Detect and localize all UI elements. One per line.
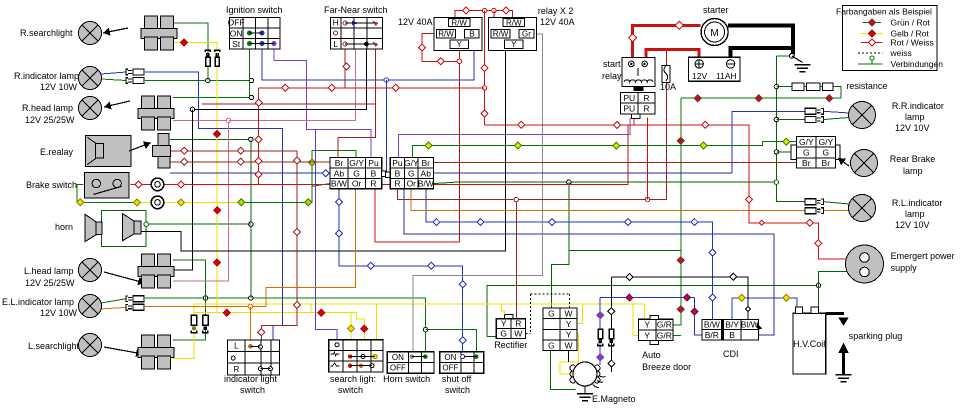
rings on brake wires xyxy=(151,178,164,191)
svg-text:R: R xyxy=(370,179,376,189)
svg-text:horn: horn xyxy=(55,222,73,232)
brake switch xyxy=(85,173,130,199)
wire: green ground bus y98 xyxy=(681,97,841,99)
wire: black far-near L down-left xyxy=(193,49,367,109)
bullet connectors R.R.indicator xyxy=(805,108,816,114)
svg-text:relay: relay xyxy=(602,71,622,81)
resistance resistors xyxy=(776,86,792,88)
wire: green ground link to battery minus xyxy=(776,55,791,57)
svg-text:11AH: 11AH xyxy=(716,71,737,81)
relay 2 box xyxy=(489,17,537,50)
svg-text:G: G xyxy=(822,147,829,157)
svg-text:R: R xyxy=(515,319,521,329)
lamp R.R.indicator xyxy=(849,102,876,129)
wire: blue B/W table B to CDI xyxy=(426,189,712,320)
emergency power supply xyxy=(846,245,884,283)
svg-text:Horn switch: Horn switch xyxy=(383,374,430,384)
svg-text:lamp: lamp xyxy=(903,166,923,176)
svg-text:Farbangaben als Beispiel: Farbangaben als Beispiel xyxy=(836,7,932,17)
svg-text:G: G xyxy=(548,308,555,318)
svg-text:R.searchlight: R.searchlight xyxy=(20,28,73,38)
svg-text:Br: Br xyxy=(335,158,344,168)
svg-text:R/W: R/W xyxy=(451,18,467,27)
svg-text:B: B xyxy=(469,29,474,38)
svg-text:lamp: lamp xyxy=(905,112,925,122)
svg-text:Grün / Rot: Grün / Rot xyxy=(891,18,931,28)
wire: green ignition ON/St drops xyxy=(173,97,251,99)
wire: brown Br row net E.relay to rear brake connector xyxy=(170,161,330,163)
CDI connector tables xyxy=(702,320,722,340)
svg-text:Brake switch: Brake switch xyxy=(26,180,77,190)
svg-text:Emergert power: Emergert power xyxy=(891,251,955,261)
svg-text:E.realay: E.realay xyxy=(40,147,74,157)
lamp R.head xyxy=(79,97,102,120)
svg-text:R.indicator lamp: R.indicator lamp xyxy=(14,71,79,81)
svg-text:Br: Br xyxy=(822,158,831,168)
wire: blue B/Y CDI to R.R.indicator xyxy=(732,111,805,173)
wire: green bus y285 to emergency supply xyxy=(487,285,819,336)
svg-text:switch: switch xyxy=(338,385,363,395)
svg-text:Y: Y xyxy=(566,319,572,329)
svg-text:B: B xyxy=(371,168,377,178)
svg-text:G/R: G/R xyxy=(657,320,672,330)
svg-text:Rot / Weiss: Rot / Weiss xyxy=(891,38,934,48)
svg-text:R: R xyxy=(643,104,649,114)
wire: maroon far-near col1 to red bus xyxy=(344,49,346,88)
wire: red top bus relay R/W xyxy=(455,11,513,18)
svg-text:G: G xyxy=(408,168,415,178)
svg-text:B/R: B/R xyxy=(705,330,719,340)
wire: red brake switch feed xyxy=(131,125,628,185)
svg-text:OFF: OFF xyxy=(390,364,406,373)
svg-text:12V 40A: 12V 40A xyxy=(540,17,575,27)
battery 12V 11AH xyxy=(689,57,740,81)
lamp rear brake xyxy=(851,150,878,177)
connector block L.searchlight xyxy=(142,335,155,348)
rear brake connector table G/Y G Br xyxy=(791,145,840,160)
svg-text:L.searchlight: L.searchlight xyxy=(28,341,80,351)
wire: maroon battery fuse to rectifier / table B R xyxy=(666,49,668,65)
wire: maroon E.relay to indicator switch xyxy=(171,151,297,340)
svg-text:G/R: G/R xyxy=(657,330,672,340)
svg-text:G: G xyxy=(500,329,507,339)
svg-text:switch: switch xyxy=(240,385,265,395)
svg-text:Pu: Pu xyxy=(368,158,379,168)
starter motor xyxy=(701,19,728,46)
indicator light switch table xyxy=(228,340,280,375)
svg-text:L.head lamp: L.head lamp xyxy=(24,266,74,276)
svg-text:E.Magneto: E.Magneto xyxy=(592,394,636,404)
svg-text:Rectifier: Rectifier xyxy=(494,340,527,350)
svg-text:R: R xyxy=(394,179,400,189)
wire: green horn loop xyxy=(101,211,146,247)
ground battery xyxy=(795,64,811,66)
wire: blue y233 to CDI right cell xyxy=(404,189,774,336)
svg-text:start: start xyxy=(603,59,621,69)
svg-text:OFF: OFF xyxy=(228,18,245,28)
wire: green to R.R.indicator xyxy=(776,119,805,121)
wire: violet to search light switch xyxy=(316,129,338,339)
svg-text:12V 25/25W: 12V 25/25W xyxy=(25,278,75,288)
H.V.Coil xyxy=(793,313,826,374)
svg-text:W: W xyxy=(514,329,522,339)
lamp R.searchlight xyxy=(79,22,102,45)
wire: green to G cell of rear-brake connector xyxy=(776,151,796,153)
svg-text:Pu: Pu xyxy=(392,158,403,168)
svg-text:sparking plug: sparking plug xyxy=(849,331,903,341)
wire: thick red starter cables xyxy=(633,25,701,57)
svg-text:G/Y: G/Y xyxy=(799,137,814,147)
relay 1 box xyxy=(434,17,482,50)
svg-text:G: G xyxy=(353,168,360,178)
svg-text:supply: supply xyxy=(891,263,918,273)
lamp R.indicator xyxy=(79,67,102,90)
lamp R.L.indicator xyxy=(849,195,876,222)
shut off switch table xyxy=(440,352,484,374)
svg-text:R.head lamp: R.head lamp xyxy=(22,103,73,113)
wire: red relay1 Y down to y243 xyxy=(375,51,460,243)
svg-text:B/W: B/W xyxy=(418,179,434,189)
wire: purple table B Pu to start relay PU xyxy=(399,118,630,158)
svg-text:G/Y: G/Y xyxy=(404,158,419,168)
svg-text:resistance: resistance xyxy=(846,81,887,91)
svg-text:Or: Or xyxy=(407,179,417,189)
wire: green vertical x250.8 xyxy=(170,138,251,140)
svg-text:ON: ON xyxy=(444,353,456,362)
svg-text:starter: starter xyxy=(703,5,729,15)
svg-text:Auto: Auto xyxy=(642,350,661,360)
CDI cursor arrow xyxy=(757,323,763,331)
far-near switch table xyxy=(331,17,383,49)
svg-text:ON: ON xyxy=(392,353,404,362)
sparking plug symbol xyxy=(826,312,844,315)
svg-text:Ab: Ab xyxy=(421,168,432,178)
wire: green magneto G net xyxy=(312,184,330,187)
svg-text:M: M xyxy=(710,28,718,39)
svg-text:12V 10V: 12V 10V xyxy=(895,123,930,133)
svg-text:R/W: R/W xyxy=(438,29,454,38)
wire: maroon far-near col4 xyxy=(338,49,376,157)
wire: blue CDI out to H.V.Coil xyxy=(732,298,797,307)
svg-text:12V: 12V xyxy=(692,71,707,81)
start relay box xyxy=(622,57,655,86)
svg-text:PU: PU xyxy=(623,93,635,103)
svg-text:E.L.indicator lamp: E.L.indicator lamp xyxy=(2,297,74,307)
wire: orange Or table A loop down-left xyxy=(266,189,356,307)
svg-text:Ignition switch: Ignition switch xyxy=(226,5,283,15)
svg-text:R.L.indicator: R.L.indicator xyxy=(892,198,943,208)
wire: green magneto G to flywheel xyxy=(551,351,576,390)
svg-text:Rear Brake: Rear Brake xyxy=(890,154,936,164)
svg-text:Br: Br xyxy=(422,158,431,168)
wire: yellow stubs to E.Magneto Y cells xyxy=(577,304,583,323)
svg-text:12V 10W: 12V 10W xyxy=(40,82,78,92)
svg-text:Y: Y xyxy=(511,40,517,49)
svg-text:lamp: lamp xyxy=(905,209,925,219)
bullet connectors R.indicator xyxy=(126,69,128,75)
horn speaker 1 xyxy=(85,214,96,241)
E.relay connector xyxy=(158,134,169,146)
svg-text:12V 25/25W: 12V 25/25W xyxy=(25,115,75,125)
E.Magneto table G W / Y / Y / G W xyxy=(543,308,577,351)
svg-text:W: W xyxy=(565,308,573,318)
horn speaker 2 xyxy=(123,214,135,241)
svg-text:10A: 10A xyxy=(660,82,676,92)
wire: dotted weiss wire rectifier W xyxy=(530,294,532,334)
search light switch table xyxy=(329,340,383,372)
bullet connectors R.L.indicator xyxy=(805,199,816,205)
connector block L.head lamp xyxy=(142,254,155,267)
svg-text:Or: Or xyxy=(352,179,362,189)
lamp L.searchlight xyxy=(79,334,102,357)
svg-text:B: B xyxy=(729,330,735,340)
svg-text:ON: ON xyxy=(230,28,243,38)
svg-text:Bl/W: Bl/W xyxy=(741,320,759,330)
wire: green net E.L.indicator - switches xyxy=(101,299,126,303)
auto breeze door table xyxy=(639,319,673,340)
svg-text:L: L xyxy=(234,342,239,351)
wire: G/Y brake light net xyxy=(77,184,137,202)
wire: green L.head lamp xyxy=(173,260,206,298)
svg-text:G: G xyxy=(548,340,555,350)
wire: gray relay Gr to horn switch xyxy=(413,34,543,352)
wire: black magneto W stub xyxy=(568,351,570,362)
wire: blue R.indicator to indicator-light-switch xyxy=(101,72,126,74)
horn switch table xyxy=(387,352,434,374)
svg-text:Verbindungen: Verbindungen xyxy=(891,59,944,69)
svg-text:PU: PU xyxy=(623,104,635,114)
mating symbol between tables xyxy=(382,171,387,177)
svg-text:12V 40A: 12V 40A xyxy=(398,17,433,27)
bullet connectors E.L.indicator xyxy=(126,296,128,302)
svg-text:12V 10W: 12V 10W xyxy=(40,308,78,318)
wire: blue CDI/magneto pickup xyxy=(600,297,694,299)
rectifier table xyxy=(505,315,513,319)
start relay lower connector xyxy=(634,87,643,91)
svg-text:B: B xyxy=(395,168,401,178)
wire: yellow risers into search light switch xyxy=(361,325,368,332)
svg-text:R: R xyxy=(233,365,239,374)
PU|R table xyxy=(621,92,655,114)
svg-text:search ligh:: search ligh: xyxy=(330,374,376,384)
svg-text:H: H xyxy=(333,18,339,28)
svg-text:relay X 2: relay X 2 xyxy=(538,6,574,16)
svg-text:R/W: R/W xyxy=(506,18,522,27)
svg-text:B/W: B/W xyxy=(331,179,347,189)
svg-text:H.V.Coil: H.V.Coil xyxy=(793,339,825,349)
svg-text:Y: Y xyxy=(644,320,650,330)
svg-text:Ab: Ab xyxy=(334,168,345,178)
svg-text:Y: Y xyxy=(644,330,650,340)
fuse symbols below R.search connector xyxy=(205,50,210,52)
vertical bullet connectors near x194/x205 xyxy=(191,315,197,325)
svg-text:B/W: B/W xyxy=(704,320,720,330)
svg-text:R: R xyxy=(643,93,649,103)
svg-text:12V 10V: 12V 10V xyxy=(895,220,930,230)
wire: yellow main bus y304 xyxy=(194,303,644,305)
ground E.Magneto xyxy=(577,393,593,395)
wire: black horn to relay2 Y xyxy=(141,51,505,251)
lamp L.head xyxy=(79,259,102,282)
svg-text:Breeze door: Breeze door xyxy=(642,362,691,372)
svg-text:Far-Near switch: Far-Near switch xyxy=(324,5,388,15)
svg-text:weiss: weiss xyxy=(890,48,912,58)
connector block R.searchlight xyxy=(145,16,158,29)
svg-text:G/Y: G/Y xyxy=(349,158,364,168)
svg-text:OFF: OFF xyxy=(442,364,458,373)
legend box Farbangaben xyxy=(843,5,938,70)
svg-text:B/Y: B/Y xyxy=(725,320,739,330)
svg-text:Y: Y xyxy=(501,319,507,329)
wire: green vertical x776 (ground distribution) xyxy=(776,56,805,202)
svg-text:Y: Y xyxy=(457,40,463,49)
svg-text:Gr: Gr xyxy=(522,29,531,38)
wire: blue-violet Ab row net xyxy=(170,172,330,174)
wire: purple ignition St to table A Pu xyxy=(274,49,371,157)
svg-text:G: G xyxy=(803,147,810,157)
wire: orange Or table B to R.L.indicator xyxy=(411,189,805,211)
wire: green vertical x681 to Auto Breeze G/R xyxy=(673,98,681,325)
connector block R.head lamp xyxy=(142,96,155,109)
wire: blue B/W table A to shut-off switch xyxy=(339,189,463,353)
svg-text:L: L xyxy=(333,39,338,49)
svg-text:Y: Y xyxy=(566,330,572,340)
thick black starter cables xyxy=(728,25,793,54)
wire: yellow R.searchlight / head lamp net xyxy=(173,43,217,313)
svg-text:G/Y: G/Y xyxy=(818,137,833,147)
E.Magneto flywheel xyxy=(573,362,597,386)
svg-text:Br: Br xyxy=(802,158,811,168)
svg-text:switch: switch xyxy=(445,385,470,395)
fuse 10A xyxy=(662,65,670,82)
svg-text:W: W xyxy=(565,340,573,350)
wire: red PU|R table to y132.9 xyxy=(633,118,635,125)
svg-text:R.R.indicator: R.R.indicator xyxy=(892,101,944,111)
wire: orange E.L.indicator net xyxy=(101,307,126,309)
lamp E.L.indicator xyxy=(79,295,102,318)
svg-text:St: St xyxy=(232,39,241,49)
wire: red relay1 left R/W loop xyxy=(422,33,459,61)
wire: blue ignition ON to relay B xyxy=(262,37,474,80)
wire: black CDI Bl/W to magneto pickup xyxy=(611,277,748,319)
wire: pink head lamp / far-near xyxy=(173,121,229,282)
wire: red main vertical x484.6 xyxy=(484,11,486,125)
svg-text:shut off: shut off xyxy=(442,374,472,384)
svg-text:R/W: R/W xyxy=(493,29,509,38)
wire: red bus y124.8 to emergency supply xyxy=(485,125,847,259)
svg-text:CDI: CDI xyxy=(723,349,739,359)
svg-text:indicator light: indicator light xyxy=(224,374,278,384)
connector tables A and B (center) xyxy=(330,158,382,189)
ignition switch table xyxy=(229,17,280,49)
wire: red y87.9 far-near feed xyxy=(259,87,485,89)
E.relay body xyxy=(85,135,130,166)
